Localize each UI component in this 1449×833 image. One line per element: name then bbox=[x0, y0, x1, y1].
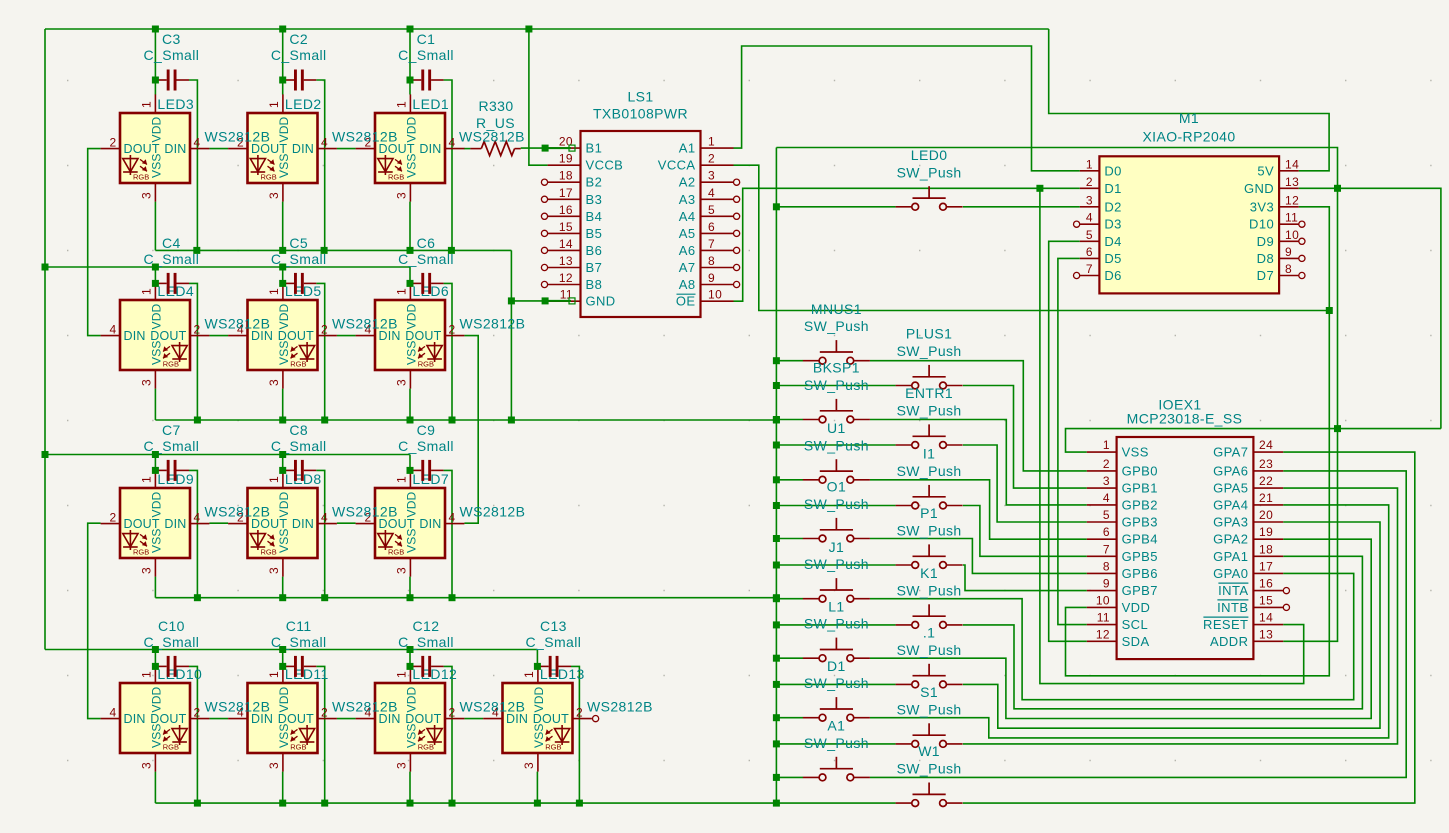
wire button common rail bbox=[775, 148, 777, 804]
wire 5V row2 rail bbox=[45, 266, 410, 268]
junction cap node row4 bbox=[152, 663, 159, 670]
wire K1 to GPA1 bbox=[963, 556, 1363, 709]
svg-text:2: 2 bbox=[321, 323, 328, 337]
svg-text:1: 1 bbox=[708, 135, 715, 149]
svg-text:4: 4 bbox=[193, 511, 200, 525]
wire rail to MNUS1 bbox=[776, 360, 803, 362]
wire rail to A1 bbox=[776, 776, 803, 778]
wire rail to I1 bbox=[776, 505, 895, 507]
wire PLUS1 to GPB1 bbox=[963, 386, 1087, 489]
svg-text:DIN: DIN bbox=[419, 517, 441, 531]
svg-text:VSS: VSS bbox=[149, 723, 163, 748]
svg-text:SW_Push: SW_Push bbox=[897, 463, 962, 479]
wire A1 to XIAO D0 bbox=[734, 46, 1080, 171]
wire GND rail row1-2 bbox=[155, 249, 511, 251]
junction GND right vertical ADDR bbox=[1334, 425, 1341, 432]
wire VCCA to 3V3 net bbox=[734, 165, 1330, 310]
svg-text:D1: D1 bbox=[1104, 181, 1121, 196]
svg-text:SW_Push: SW_Push bbox=[804, 496, 869, 512]
svg-text:WS2812B: WS2812B bbox=[460, 316, 526, 332]
svg-text:2: 2 bbox=[576, 706, 583, 720]
svg-text:VDD: VDD bbox=[532, 686, 546, 712]
switch LED0 (SW_Push) bbox=[896, 186, 963, 210]
svg-text:5: 5 bbox=[1086, 228, 1093, 242]
svg-text:1: 1 bbox=[394, 101, 408, 108]
wire XIAO 3V3 down bbox=[1066, 207, 1330, 676]
junction GND rail row3-4 bbox=[321, 594, 328, 601]
wire LED10.DOUT-LED11.DIN bbox=[209, 718, 228, 720]
wire B1 segment over pin bbox=[548, 147, 571, 149]
svg-text:12: 12 bbox=[1285, 193, 1299, 207]
svg-text:3V3: 3V3 bbox=[1250, 199, 1274, 214]
svg-text:WS2812B: WS2812B bbox=[205, 316, 271, 332]
wire rail to D1 bbox=[776, 717, 803, 719]
wire cap row4 right down bbox=[444, 666, 452, 803]
wire .1 to GPA3 bbox=[963, 522, 1380, 728]
wire rail to L1 bbox=[776, 657, 803, 659]
wire LED9.DOUT to LED10.DIN bbox=[88, 523, 101, 718]
junction GND right vertical top bbox=[1334, 185, 1341, 192]
svg-text:SW_Push: SW_Push bbox=[897, 582, 962, 598]
junction GND bottom rail bbox=[407, 800, 414, 807]
svg-text:B6: B6 bbox=[586, 243, 603, 258]
svg-text:DIN: DIN bbox=[124, 329, 146, 343]
svg-text:VDD: VDD bbox=[404, 686, 418, 712]
wire 5V drop to C3 / LED pin1 bbox=[154, 29, 156, 95]
wire LED row4 VSS down bbox=[409, 772, 411, 804]
wire O1 to GPB6 bbox=[870, 539, 1087, 574]
wire GND segment over pin bbox=[548, 300, 571, 302]
svg-text:D6: D6 bbox=[1104, 268, 1121, 283]
svg-text:11: 11 bbox=[1285, 211, 1298, 225]
wire 5V tap row3 bbox=[154, 455, 156, 471]
junction GND rail row2-3 bbox=[773, 417, 780, 424]
svg-text:LED10: LED10 bbox=[157, 666, 202, 682]
svg-text:RGB: RGB bbox=[290, 360, 306, 369]
wire 5V row4 rail bbox=[45, 649, 537, 651]
svg-text:VDD: VDD bbox=[404, 491, 418, 517]
wire 5V row3 rail bbox=[45, 454, 410, 456]
svg-text:8: 8 bbox=[1285, 262, 1292, 276]
svg-text:DIN: DIN bbox=[292, 517, 314, 531]
svg-text:2: 2 bbox=[321, 706, 328, 720]
svg-text:3: 3 bbox=[394, 379, 408, 386]
svg-text:SW_Push: SW_Push bbox=[804, 377, 869, 393]
junction cap node row3 bbox=[407, 467, 414, 474]
svg-text:3: 3 bbox=[394, 192, 408, 199]
switch .1 (SW_Push) bbox=[896, 664, 963, 688]
svg-text:4: 4 bbox=[448, 511, 455, 525]
junction cap node row2 bbox=[152, 280, 159, 287]
LED LED8 (WS2812B) bbox=[228, 469, 337, 576]
svg-text:RGB: RGB bbox=[388, 548, 404, 557]
svg-text:D1: D1 bbox=[827, 658, 846, 674]
svg-text:2: 2 bbox=[1086, 175, 1093, 189]
svg-text:SW_Push: SW_Push bbox=[897, 701, 962, 717]
svg-text:VSS: VSS bbox=[1122, 445, 1149, 460]
LED LED5 (WS2812B) bbox=[228, 281, 337, 388]
svg-text:1: 1 bbox=[267, 476, 281, 483]
LED LED11 (WS2812B) bbox=[228, 664, 337, 771]
junction GND rail row2-3 bbox=[407, 417, 414, 424]
svg-text:C_Small: C_Small bbox=[144, 251, 200, 267]
svg-text:D9: D9 bbox=[1257, 234, 1274, 249]
svg-text:C3: C3 bbox=[162, 31, 181, 47]
svg-text:VSS: VSS bbox=[277, 528, 291, 553]
svg-text:1: 1 bbox=[139, 671, 153, 678]
svg-text:GPA6: GPA6 bbox=[1213, 463, 1248, 478]
wire LED row1 VSS down bbox=[409, 202, 411, 251]
svg-text:3: 3 bbox=[394, 567, 408, 574]
capacitor C9 (C_Small) bbox=[410, 460, 444, 481]
switch ENTR1 (SW_Push) bbox=[896, 424, 963, 448]
svg-text:13: 13 bbox=[1259, 627, 1273, 641]
svg-text:20: 20 bbox=[1259, 508, 1273, 522]
wire cap row2 right down bbox=[189, 283, 197, 420]
svg-text:GPB4: GPB4 bbox=[1122, 532, 1158, 547]
junction 5V row4 rail bbox=[152, 646, 159, 653]
wire GND bottom rail bbox=[155, 802, 776, 804]
svg-text:10: 10 bbox=[1096, 593, 1110, 607]
svg-text:DOUT: DOUT bbox=[150, 329, 186, 343]
wire LED row4 VSS down bbox=[154, 772, 156, 804]
svg-text:1: 1 bbox=[394, 476, 408, 483]
svg-text:GPB0: GPB0 bbox=[1122, 463, 1158, 478]
wire 5V tap row4 bbox=[154, 650, 156, 667]
wire U1 to GPB4 bbox=[870, 480, 1087, 539]
svg-text:DIN: DIN bbox=[164, 517, 186, 531]
svg-text:RGB: RGB bbox=[418, 743, 434, 752]
svg-text:RGB: RGB bbox=[261, 548, 277, 557]
junction B1 wire bbox=[542, 145, 549, 152]
svg-text:19: 19 bbox=[559, 152, 573, 166]
svg-text:9: 9 bbox=[708, 271, 715, 285]
wire LED row3 VSS down bbox=[154, 577, 156, 598]
wire LED7.DOUT-LED8.DIN bbox=[337, 522, 356, 524]
wire OE / D1 / net bbox=[734, 188, 1080, 301]
svg-text:15: 15 bbox=[1259, 593, 1273, 607]
LED LED2 (WS2812B) bbox=[228, 94, 337, 201]
wire LED row2 VSS down bbox=[282, 389, 284, 420]
wire 5V tap row4 bbox=[409, 650, 411, 667]
svg-text:C_Small: C_Small bbox=[271, 47, 327, 63]
junction GND bottom rail bbox=[194, 800, 201, 807]
svg-text:C5: C5 bbox=[289, 235, 308, 251]
wire LED4.DOUT-LED5.DIN bbox=[209, 335, 228, 337]
svg-text:24: 24 bbox=[1259, 438, 1273, 452]
wire LED row2 VSS down bbox=[409, 389, 411, 420]
svg-text:DIN: DIN bbox=[164, 142, 186, 156]
svg-text:A1: A1 bbox=[679, 141, 696, 156]
svg-text:7: 7 bbox=[708, 237, 715, 251]
svg-text:VSS: VSS bbox=[404, 528, 418, 553]
junction 5V top rail bbox=[279, 26, 286, 33]
capacitor C11 (C_Small) bbox=[283, 656, 317, 677]
wire cap row4 right down bbox=[316, 666, 324, 803]
junction cap node row4 bbox=[279, 663, 286, 670]
svg-text:A4: A4 bbox=[679, 209, 696, 224]
svg-text:WS2812B: WS2812B bbox=[205, 504, 271, 520]
svg-text:VSS: VSS bbox=[277, 723, 291, 748]
svg-text:J1: J1 bbox=[829, 539, 845, 555]
svg-text:C_Small: C_Small bbox=[398, 47, 454, 63]
svg-text:VDD: VDD bbox=[149, 686, 163, 712]
junction button rail at I1 bbox=[773, 502, 780, 509]
svg-text:RGB: RGB bbox=[261, 173, 277, 182]
svg-text:SW_Push: SW_Push bbox=[897, 403, 962, 419]
svg-text:12: 12 bbox=[1096, 627, 1110, 641]
junction button rail at D1 bbox=[773, 714, 780, 721]
svg-text:15: 15 bbox=[559, 220, 573, 234]
svg-text:WS2812B: WS2812B bbox=[460, 504, 526, 520]
svg-text:C_Small: C_Small bbox=[144, 634, 200, 650]
switch A1 (SW_Push) bbox=[803, 757, 870, 781]
LED LED4 (WS2812B) bbox=[101, 281, 210, 388]
svg-text:SDA: SDA bbox=[1122, 634, 1150, 649]
level shifter U LS1 TXB0108PWR bbox=[541, 131, 739, 317]
svg-text:RGB: RGB bbox=[163, 360, 179, 369]
svg-text:RGB: RGB bbox=[133, 548, 149, 557]
wire D1 to GPA4 bbox=[870, 505, 1389, 738]
svg-text:WS2812B: WS2812B bbox=[205, 699, 271, 715]
wire LED row3 VSS down bbox=[282, 577, 284, 598]
wire BKSP1 to GPB2 bbox=[870, 420, 1087, 505]
svg-text:18: 18 bbox=[559, 169, 573, 183]
LED LED10 (WS2812B) bbox=[101, 664, 210, 771]
svg-text:1: 1 bbox=[1103, 438, 1110, 452]
wire 5V tap row2 bbox=[154, 267, 156, 283]
svg-text:PLUS1: PLUS1 bbox=[906, 326, 952, 342]
svg-text:4: 4 bbox=[109, 706, 116, 720]
svg-text:C_Small: C_Small bbox=[398, 634, 454, 650]
wire rail to U1 bbox=[776, 479, 803, 481]
wire rail to S1 bbox=[776, 743, 895, 745]
junction GND rail row1-2 bbox=[407, 247, 414, 254]
junction button rail at U1 bbox=[773, 476, 780, 483]
svg-text:1: 1 bbox=[139, 476, 153, 483]
junction cap node row4 bbox=[407, 663, 414, 670]
svg-text:DOUT: DOUT bbox=[124, 517, 160, 531]
svg-text:2: 2 bbox=[708, 152, 715, 166]
svg-text:VSS: VSS bbox=[404, 723, 418, 748]
svg-text:LED0: LED0 bbox=[911, 147, 948, 163]
svg-text:VDD: VDD bbox=[404, 116, 418, 142]
svg-text:C10: C10 bbox=[158, 618, 185, 634]
svg-text:8: 8 bbox=[708, 254, 715, 268]
junction cap node row4 bbox=[534, 663, 541, 670]
junction 5V top rail bbox=[407, 26, 414, 33]
wire cap row3 right down bbox=[444, 470, 452, 597]
junction GND rail row1-2 bbox=[321, 247, 328, 254]
svg-text:1: 1 bbox=[394, 671, 408, 678]
svg-text:D2: D2 bbox=[1104, 199, 1121, 214]
svg-text:13: 13 bbox=[559, 254, 573, 268]
wire cap row3 right down bbox=[189, 470, 197, 597]
svg-text:MNUS1: MNUS1 bbox=[811, 301, 862, 317]
svg-text:GPA7: GPA7 bbox=[1213, 445, 1248, 460]
svg-text:A6: A6 bbox=[679, 243, 696, 258]
svg-text:VDD: VDD bbox=[404, 303, 418, 329]
svg-text:1: 1 bbox=[139, 288, 153, 295]
wire S1 to GPA5 bbox=[963, 488, 1398, 744]
wire 5V tap row3 bbox=[409, 455, 411, 471]
svg-text:3: 3 bbox=[522, 762, 536, 769]
wire cap row2 right down bbox=[444, 283, 452, 420]
wire LED row3 VSS down bbox=[409, 577, 411, 598]
svg-text:VCCB: VCCB bbox=[586, 158, 624, 173]
svg-text:S1: S1 bbox=[920, 684, 938, 700]
capacitor C10 (C_Small) bbox=[155, 656, 189, 677]
svg-text:SW_Push: SW_Push bbox=[804, 675, 869, 691]
svg-text:RGB: RGB bbox=[388, 173, 404, 182]
wire LED11.DOUT-LED12.DIN bbox=[337, 718, 356, 720]
svg-text:GPA5: GPA5 bbox=[1213, 481, 1248, 496]
svg-text:VSS: VSS bbox=[149, 528, 163, 553]
svg-text:GPA1: GPA1 bbox=[1213, 549, 1248, 564]
svg-text:WS2812B: WS2812B bbox=[460, 699, 526, 715]
svg-text:VDD: VDD bbox=[277, 303, 291, 329]
junction GND bottom rail bbox=[534, 800, 541, 807]
svg-text:MCP23018-E_SS: MCP23018-E_SS bbox=[1127, 411, 1243, 427]
svg-text:.1: .1 bbox=[923, 625, 935, 641]
svg-text:VSS: VSS bbox=[532, 723, 546, 748]
svg-text:DOUT: DOUT bbox=[533, 712, 569, 726]
wire VCCB from 5V rail bbox=[529, 29, 548, 165]
svg-text:SW_Push: SW_Push bbox=[897, 642, 962, 658]
junction GND rail row1-2 bbox=[279, 247, 286, 254]
switch U1 (SW_Push) bbox=[803, 459, 870, 483]
svg-text:GND: GND bbox=[586, 294, 616, 309]
junction GND rail row3-4 bbox=[407, 594, 414, 601]
wire P1 to GPB7 bbox=[963, 565, 1087, 591]
junction cap node row3 bbox=[152, 467, 159, 474]
svg-text:A1: A1 bbox=[827, 718, 845, 734]
svg-text:C_Small: C_Small bbox=[144, 47, 200, 63]
svg-text:4: 4 bbox=[448, 136, 455, 150]
svg-text:TXB0108PWR: TXB0108PWR bbox=[593, 106, 688, 122]
svg-text:D8: D8 bbox=[1257, 251, 1274, 266]
svg-text:B7: B7 bbox=[586, 260, 603, 275]
wire J1 to GPA0 bbox=[870, 573, 1354, 699]
svg-text:LS1: LS1 bbox=[627, 89, 653, 105]
wire 5V tap row3 bbox=[282, 455, 284, 471]
svg-text:2: 2 bbox=[193, 323, 200, 337]
wire MCP VSS to GND bbox=[1066, 429, 1441, 453]
svg-text:1: 1 bbox=[267, 671, 281, 678]
wire 5V top rail bbox=[45, 28, 1049, 30]
svg-text:10: 10 bbox=[1285, 228, 1299, 242]
svg-text:OE: OE bbox=[676, 294, 696, 309]
capacitor C3 (C_Small) bbox=[155, 70, 189, 91]
svg-text:10: 10 bbox=[708, 288, 722, 302]
svg-text:3: 3 bbox=[267, 192, 281, 199]
svg-text:VSS: VSS bbox=[277, 340, 291, 365]
capacitor C8 (C_Small) bbox=[283, 460, 317, 481]
svg-text:3: 3 bbox=[139, 567, 153, 574]
wire end marker B1 bbox=[569, 145, 575, 151]
svg-text:GPA3: GPA3 bbox=[1213, 515, 1248, 530]
svg-text:DOUT: DOUT bbox=[278, 329, 314, 343]
svg-text:VDD: VDD bbox=[277, 116, 291, 142]
wire LED2.DIN-LED1.DOUT bbox=[337, 148, 356, 150]
junction button rail at .1 bbox=[773, 681, 780, 688]
wire XIAO D5 to MCP SCL bbox=[1058, 258, 1087, 624]
svg-text:LED11: LED11 bbox=[285, 666, 329, 682]
svg-text:3: 3 bbox=[139, 192, 153, 199]
svg-text:D0: D0 bbox=[1104, 163, 1121, 178]
junction cap node row1 bbox=[279, 77, 286, 84]
svg-text:GND: GND bbox=[1244, 181, 1274, 196]
wire button rail top to GND bbox=[776, 148, 1337, 642]
junction button rail at P1 bbox=[773, 562, 780, 569]
svg-text:XIAO-RP2040: XIAO-RP2040 bbox=[1142, 129, 1235, 145]
svg-text:RGB: RGB bbox=[545, 743, 561, 752]
switch O1 (SW_Push) bbox=[803, 518, 870, 542]
svg-text:DOUT: DOUT bbox=[278, 712, 314, 726]
svg-text:D3: D3 bbox=[1104, 217, 1121, 232]
wire rail to P1 bbox=[776, 564, 895, 566]
svg-text:DOUT: DOUT bbox=[405, 712, 441, 726]
wire LED row1 VSS down bbox=[282, 202, 284, 251]
svg-text:DOUT: DOUT bbox=[124, 142, 160, 156]
svg-text:3: 3 bbox=[267, 379, 281, 386]
svg-text:C_Small: C_Small bbox=[271, 251, 327, 267]
svg-text:VSS: VSS bbox=[149, 153, 163, 178]
svg-text:17: 17 bbox=[559, 186, 573, 200]
svg-text:WS2812B: WS2812B bbox=[332, 699, 398, 715]
wire cap row4 right down bbox=[189, 666, 197, 803]
capacitor C2 (C_Small) bbox=[283, 70, 317, 91]
svg-text:I1: I1 bbox=[923, 446, 935, 462]
junction left rail row2 bbox=[42, 264, 49, 271]
svg-text:4: 4 bbox=[321, 136, 328, 150]
junction cap node row3 bbox=[279, 467, 286, 474]
svg-text:VCCA: VCCA bbox=[658, 158, 696, 173]
svg-text:LED3: LED3 bbox=[157, 96, 194, 112]
capacitor C5 (C_Small) bbox=[283, 273, 317, 294]
junction GND rail row3-4 bbox=[279, 594, 286, 601]
wire TXB GND pin link bbox=[511, 300, 571, 302]
wire 5V left rail bbox=[44, 29, 46, 650]
wire 5V tap row4 bbox=[536, 650, 538, 667]
wire LED row4 VSS down bbox=[282, 772, 284, 804]
resistor R330 (R_US) bbox=[470, 142, 520, 156]
wire 5V drop to C1 / LED pin1 bbox=[409, 29, 411, 95]
wire LED3.DIN-LED2.DOUT bbox=[209, 148, 228, 150]
wire D1 branch to MCP RESET bbox=[1040, 188, 1304, 683]
svg-text:B1: B1 bbox=[586, 141, 603, 156]
svg-text:GPB7: GPB7 bbox=[1122, 583, 1158, 598]
svg-text:4: 4 bbox=[1086, 211, 1093, 225]
svg-text:SW_Push: SW_Push bbox=[804, 437, 869, 453]
svg-text:B8: B8 bbox=[586, 277, 603, 292]
svg-text:A7: A7 bbox=[679, 260, 696, 275]
svg-text:B4: B4 bbox=[586, 209, 603, 224]
svg-text:17: 17 bbox=[1259, 559, 1273, 573]
svg-text:A5: A5 bbox=[679, 226, 696, 241]
wire rail to BKSP1 bbox=[776, 419, 803, 421]
wire L1 to GPA2 bbox=[870, 539, 1371, 718]
junction GND rail row2-3 bbox=[321, 417, 328, 424]
svg-text:VDD: VDD bbox=[149, 491, 163, 517]
svg-text:20: 20 bbox=[559, 135, 573, 149]
wire cap row2 right down bbox=[316, 283, 324, 420]
switch D1 (SW_Push) bbox=[803, 697, 870, 721]
svg-text:U1: U1 bbox=[827, 420, 846, 436]
wire GND rail row2-3 bbox=[155, 419, 776, 421]
LED LED12 (WS2812B) bbox=[356, 664, 465, 771]
wire GND rail row3-4 bbox=[155, 597, 776, 599]
